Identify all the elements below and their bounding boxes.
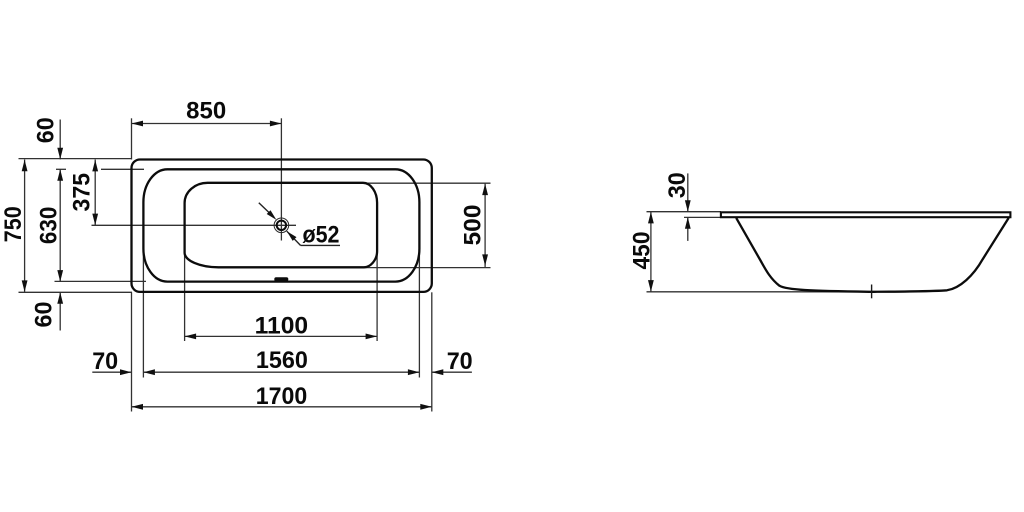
svg-text:500: 500 <box>460 205 487 246</box>
svg-text:750: 750 <box>0 206 27 242</box>
svg-text:60: 60 <box>33 117 60 143</box>
svg-text:30: 30 <box>664 172 691 198</box>
svg-text:850: 850 <box>186 97 226 124</box>
svg-text:450: 450 <box>628 232 655 270</box>
svg-text:375: 375 <box>68 173 95 212</box>
svg-text:ø52: ø52 <box>303 221 340 248</box>
svg-text:60: 60 <box>31 302 58 328</box>
svg-text:1560: 1560 <box>256 347 308 374</box>
svg-text:1700: 1700 <box>256 383 308 410</box>
svg-text:70: 70 <box>92 348 118 375</box>
svg-text:70: 70 <box>447 348 473 375</box>
svg-text:1100: 1100 <box>255 313 309 340</box>
svg-text:630: 630 <box>36 207 63 245</box>
